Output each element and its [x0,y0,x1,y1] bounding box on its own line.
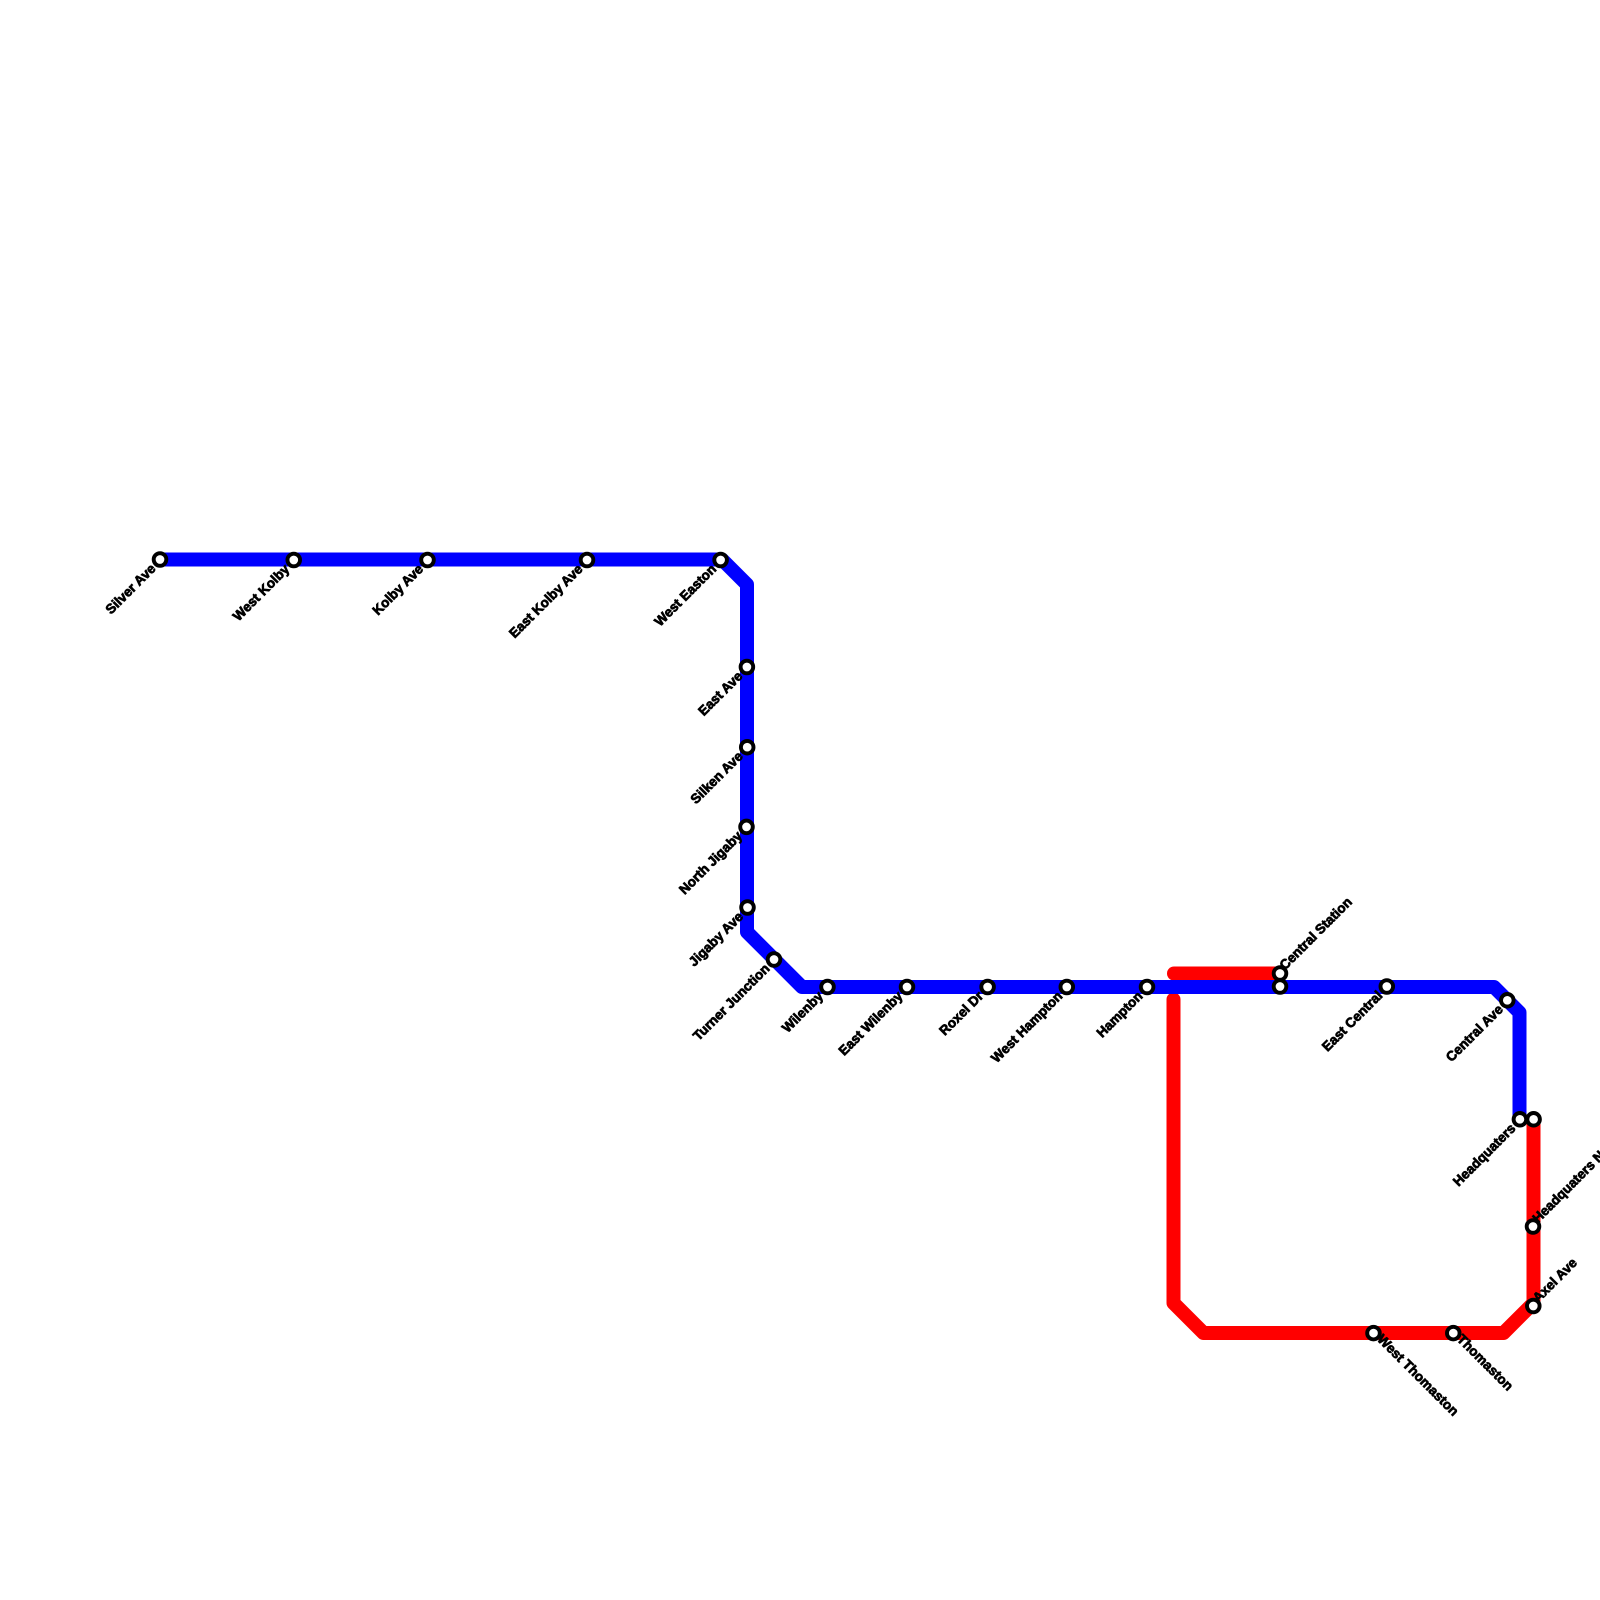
svg-text:North Jigaby: North Jigaby [676,828,745,897]
svg-text:Headquaters: Headquaters [1450,1121,1518,1189]
svg-text:Kolby Ave: Kolby Ave [370,561,427,618]
svg-text:Central Station: Central Station [1276,894,1354,972]
svg-text:Turner Junction: Turner Junction [690,961,773,1044]
svg-text:Silken Ave: Silken Ave [688,748,747,807]
svg-text:East Ave: East Ave [695,668,746,719]
svg-text:West Thomaston: West Thomaston [1374,1332,1461,1419]
svg-text:Jigaby Ave: Jigaby Ave [686,909,747,970]
svg-text:Hampton: Hampton [1094,988,1146,1040]
svg-text:West Easton: West Easton [651,561,719,629]
svg-text:East Central: East Central [1319,988,1385,1054]
svg-text:Thomaston: Thomaston [1454,1332,1516,1394]
svg-text:Roxel Dr: Roxel Dr [936,988,986,1038]
svg-text:Wilenby: Wilenby [779,988,826,1035]
svg-text:Central Ave: Central Ave [1443,1001,1506,1064]
svg-text:East Wilenby: East Wilenby [836,988,906,1058]
svg-text:West Hampton: West Hampton [988,988,1065,1065]
svg-text:Silver Ave: Silver Ave [103,561,159,617]
svg-text:East Kolby Ave: East Kolby Ave [506,561,586,641]
svg-text:West Kolby: West Kolby [230,561,293,624]
